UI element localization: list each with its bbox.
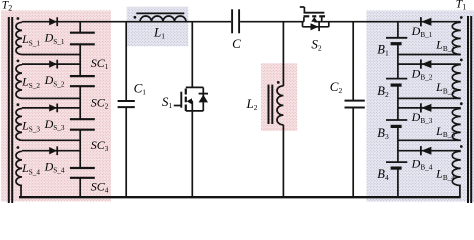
winding LS_2 (coil) <box>16 65 22 99</box>
wire C2 branch top <box>352 22 354 101</box>
polarity dot winding LS_4 <box>17 146 20 149</box>
wire winding LS_4 top to SC bus <box>22 150 80 152</box>
wire winding LB_4 bottom to rail <box>459 185 461 198</box>
svg-text:T1: T1 <box>456 0 466 12</box>
polarity dot winding LB_3 <box>460 102 463 105</box>
mosfet S1 body diode <box>199 87 208 111</box>
diode DB_3 <box>421 104 431 112</box>
wire S1 source to rail <box>191 111 193 197</box>
wire winding LS_3 bottom to SC bus <box>22 139 80 141</box>
transformer core T1 side <box>467 16 469 203</box>
polarity dot L1 <box>134 16 137 19</box>
capacitor SC3 <box>70 118 95 120</box>
wire battery bus segment 4 <box>397 126 399 162</box>
winding LS_4 (coil) <box>16 151 22 185</box>
battery B1 <box>386 37 407 39</box>
diode DS_1 <box>49 18 57 25</box>
diode DS_2 <box>49 60 57 67</box>
wire winding LB_3 top to battery bus <box>398 107 461 109</box>
wire SC bus segment 4 <box>79 130 81 168</box>
diode DB_4 <box>421 147 431 155</box>
shaded region: L1 box (blue) <box>127 7 189 47</box>
polarity dot winding LS_2 <box>17 60 20 63</box>
wire battery bus segment 1 <box>397 22 399 38</box>
wire winding LB_2 bottom to battery bus <box>398 97 461 99</box>
wire SC bus segment 3 <box>79 86 81 119</box>
winding LB_2 (coil) <box>452 65 460 99</box>
battery B2 <box>386 78 407 80</box>
winding LB_3 (coil) <box>452 109 460 141</box>
wire C2 branch bottom <box>352 108 354 198</box>
winding LB_1 (coil) <box>452 22 460 54</box>
inductor L1 (coil) <box>140 16 186 22</box>
wire L2 branch top <box>282 22 284 87</box>
battery B4 <box>386 161 407 163</box>
wire C1 branch bottom <box>125 107 127 197</box>
mosfet S2 <box>300 7 325 22</box>
wire battery bus segment 5 <box>397 168 399 197</box>
svg-text:S2: S2 <box>311 36 322 52</box>
diode DB_1 <box>421 18 431 26</box>
wire winding LB_4 top to battery bus <box>398 150 461 152</box>
shaded region: L2 box (pink) <box>261 63 297 131</box>
wire winding LS_1 bottom to SC bus <box>22 54 80 56</box>
diode DS_3 <box>49 104 57 111</box>
capacitor C <box>231 9 233 33</box>
capacitor SC4 <box>70 167 95 169</box>
wire SC bus segment 5 <box>79 178 81 197</box>
wire C1 branch top <box>125 22 127 101</box>
wire winding LS_3 top to SC bus <box>22 107 80 109</box>
transformer core L2 <box>268 85 270 124</box>
capacitor SC1 <box>70 32 95 34</box>
wire bottom rail <box>19 196 461 198</box>
wire L2 branch bottom <box>282 125 284 197</box>
shaded region: battery side (blue) <box>366 11 474 202</box>
wire SC bus segment 2 <box>79 44 81 76</box>
wire battery bus segment 2 <box>397 44 399 79</box>
svg-text:C: C <box>232 36 241 51</box>
wire winding LS_4 bottom to rail <box>20 185 22 198</box>
polarity dot winding LS_3 <box>17 103 20 106</box>
svg-text:L2: L2 <box>246 96 258 112</box>
polarity dot winding LS_1 <box>17 17 20 20</box>
capacitor C2 <box>345 100 365 102</box>
polarity dot winding LB_2 <box>460 59 463 62</box>
capacitor SC2 <box>70 75 95 77</box>
wire top rail mid segment <box>240 21 304 23</box>
battery B3 <box>386 119 407 121</box>
wire winding LB_1 bottom to battery bus <box>398 54 461 56</box>
polarity dot L2 <box>277 81 280 84</box>
diode DB_2 <box>421 60 431 68</box>
wire winding LB_2 top to battery bus <box>398 63 461 65</box>
capacitor C1 <box>118 100 135 102</box>
wire top rail left segment <box>22 21 231 23</box>
polarity dot winding LB_1 <box>460 16 463 19</box>
winding LB_4 (coil) <box>452 151 460 185</box>
inductor L1 core bar <box>136 12 184 14</box>
svg-text:T2: T2 <box>2 0 12 13</box>
transformer core T2 side <box>8 17 10 203</box>
winding LS_3 (coil) <box>16 109 22 141</box>
diode DS_4 <box>49 147 57 154</box>
mosfet S2 body diode <box>303 22 329 31</box>
wire battery bus segment 3 <box>397 85 399 120</box>
wire top rail right segment <box>314 21 460 23</box>
svg-text:S1: S1 <box>162 94 173 110</box>
winding LS_1 (coil) <box>16 22 22 54</box>
inductor L2 (coil) <box>277 86 283 125</box>
wire winding LS_2 top to SC bus <box>22 63 80 65</box>
shaded region: supercapacitor side (pink) <box>1 11 111 202</box>
wire winding LB_3 bottom to battery bus <box>398 139 461 141</box>
wire SC bus segment 1 <box>79 22 81 33</box>
polarity dot winding LB_4 <box>460 145 463 148</box>
mosfet S1 <box>174 87 204 111</box>
svg-text:C1: C1 <box>134 80 147 96</box>
wire winding LS_2 bottom to SC bus <box>22 97 80 99</box>
svg-text:C2: C2 <box>330 79 343 95</box>
wire S1 drain from rail <box>191 22 193 88</box>
